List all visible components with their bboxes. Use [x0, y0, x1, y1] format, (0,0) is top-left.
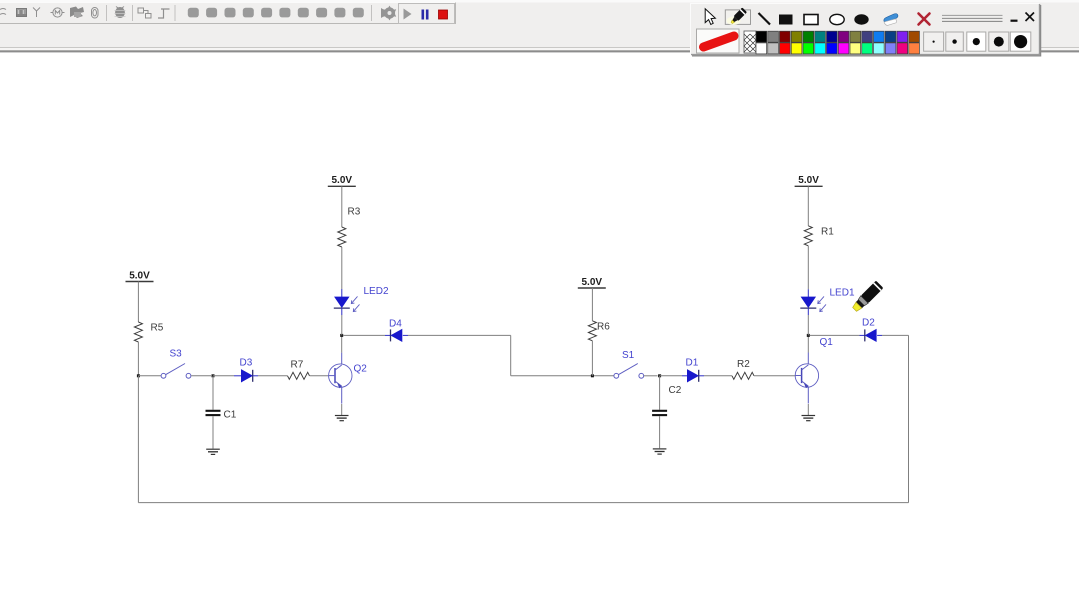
width selector lines [942, 15, 1003, 21]
icon source squiggle (cut off) [0, 9, 6, 15]
wire right rail [908, 335, 910, 502]
lead D3 anode [234, 375, 242, 377]
lead D4 cathode [385, 334, 391, 336]
wire left rail [137, 376, 139, 503]
power 5.0V V4 [795, 175, 823, 186]
svg-text:S3: S3 [170, 349, 183, 360]
ground GND C2 [653, 449, 667, 454]
LED LED2 [334, 296, 360, 311]
icon step waveform [158, 9, 170, 18]
lead D1 anode [682, 375, 688, 377]
power 5.0V V2 [328, 175, 356, 186]
svg-text:5.0V: 5.0V [129, 270, 150, 281]
switch S1 [614, 350, 644, 378]
wire R6 to node [591, 341, 593, 376]
junction node Q2 collector [340, 334, 343, 337]
wire step down [510, 335, 512, 375]
tool button: eraser [884, 14, 898, 26]
svg-text:R7: R7 [291, 360, 304, 371]
icon hierarchy blocks [138, 8, 151, 18]
wire node to C1 [212, 376, 214, 410]
pen size option r=5.0 [989, 32, 1009, 51]
lead LED1 cathode [807, 308, 809, 315]
wire C2 to ground [659, 416, 661, 448]
play button [404, 9, 412, 20]
tool button: filled rectangle [779, 15, 793, 25]
wire node to D3 [213, 375, 234, 377]
svg-text:D3: D3 [240, 358, 253, 369]
junction node C1 [212, 374, 215, 377]
wire bottom rail [138, 502, 908, 504]
wire LED2 to node [341, 315, 343, 335]
pen size option r=2.2 [946, 32, 964, 51]
separator [174, 5, 176, 21]
wire C1 to ground [212, 416, 214, 448]
tool button: select arrow [705, 9, 715, 25]
wire node to D4 [343, 334, 385, 336]
wire V4 to R1 [807, 186, 809, 226]
switch S3 [161, 349, 191, 379]
power 5.0V V1 [126, 270, 154, 281]
ground GND Q2 [335, 416, 349, 421]
svg-text:R1: R1 [821, 227, 834, 238]
wire D4 east [408, 334, 511, 336]
separator [371, 5, 373, 21]
wire Q1 collector to node [807, 337, 809, 353]
diode D2 [865, 329, 876, 341]
wire node to S3 [138, 375, 161, 377]
icon bug/virtual [115, 7, 126, 18]
annotation toolbar panel [690, 3, 1039, 54]
wire V2 to R3 [341, 186, 343, 227]
icon motor [51, 8, 65, 17]
svg-text:C1: C1 [224, 410, 237, 421]
wire V3 to R6 [591, 288, 593, 321]
svg-text:LED2: LED2 [364, 286, 389, 297]
pause button [422, 10, 429, 20]
icon component box [17, 9, 27, 17]
wire D1 to R2 [704, 375, 732, 377]
toolbar background strip [0, 0, 1079, 52]
wire D3 to R7 [258, 375, 288, 377]
lead LED2 cathode [341, 308, 343, 315]
capacitor C1 [206, 411, 221, 415]
lead D2 anode [877, 334, 882, 336]
wire Q2 emitter to ground [341, 404, 343, 415]
junction node Q1 collector [807, 334, 810, 337]
resistor R6 [588, 321, 596, 341]
tool button: clear X [919, 14, 930, 25]
wire node to D2 [810, 334, 860, 336]
svg-text:D4: D4 [389, 319, 402, 330]
tool button: rectangle outline [804, 15, 818, 25]
pen size option r=1.1 [924, 32, 944, 51]
icon transducer Y [33, 8, 40, 18]
wire LED1 to node [807, 315, 809, 335]
wire R3 to LED2 [341, 247, 343, 289]
svg-text:D1: D1 [686, 358, 699, 369]
resistor R3 [338, 227, 346, 247]
wire to S1 [511, 375, 614, 377]
tool button: pen (selected) [725, 10, 750, 25]
wire R5 to node [137, 342, 139, 376]
lead D3 cathode [253, 375, 258, 377]
svg-text:5.0V: 5.0V [798, 175, 819, 186]
stroke preview box [697, 29, 740, 53]
ground GND C1 [206, 449, 220, 454]
wire S3 to node C1 [191, 375, 211, 377]
svg-text:R2: R2 [737, 359, 750, 370]
svg-text:Q2: Q2 [354, 364, 368, 375]
wire R7 to Q2 base [310, 375, 329, 377]
svg-text:R3: R3 [348, 207, 361, 218]
junction node C2 [658, 374, 661, 377]
svg-text:R6: R6 [597, 322, 610, 333]
lead LED1 anode [807, 289, 809, 297]
wire R2 to Q1 base [754, 375, 795, 377]
svg-text:Q1: Q1 [820, 337, 834, 348]
wire R1 to LED1 [807, 246, 809, 289]
diode D4 [391, 329, 402, 341]
wire S1 to node C2 [644, 375, 658, 377]
icon battery capsule [92, 8, 99, 19]
separator [132, 5, 134, 21]
transistor Q2 [329, 353, 352, 404]
svg-text:C2: C2 [669, 385, 682, 396]
lead LED2 anode [341, 289, 343, 297]
color palette [756, 31, 919, 54]
resistor R7 [288, 372, 310, 379]
svg-text:5.0V: 5.0V [582, 277, 603, 288]
svg-text:D2: D2 [862, 318, 875, 329]
junction node R6 [591, 374, 594, 377]
stop button [439, 10, 448, 19]
lead D1 cathode [699, 375, 704, 377]
LED LED1 [800, 296, 826, 311]
wire V1 to R5 [137, 282, 139, 323]
tool button: filled ellipse [854, 14, 868, 24]
lead D2 cathode [860, 334, 865, 336]
svg-text:S1: S1 [622, 350, 635, 361]
tool button: ellipse outline [830, 14, 844, 24]
svg-text:R5: R5 [151, 323, 164, 334]
separator [106, 5, 108, 21]
svg-text:LED1: LED1 [830, 288, 855, 299]
lead D4 anode [403, 334, 408, 336]
wire node to C2 [659, 376, 661, 410]
diode D1 [688, 370, 699, 382]
gear icon [381, 6, 396, 21]
wire D2 to right rail [882, 334, 909, 336]
svg-text:5.0V: 5.0V [332, 175, 353, 186]
ground GND Q1 [802, 416, 816, 421]
minimize button [1011, 20, 1018, 22]
wire Q1 emitter to ground [807, 404, 809, 415]
toolbar lower separator lines [0, 47, 1079, 49]
capacitor C2 [652, 411, 667, 415]
diode D3 [242, 370, 253, 382]
wire node to D1 [660, 375, 682, 377]
marker pen cursor [851, 281, 884, 314]
run controls frame [399, 4, 455, 24]
pen size option r=6.6 [1010, 32, 1031, 51]
transparent hatch swatch [744, 31, 756, 53]
left toolbar frame [0, 3, 456, 24]
resistor R5 [134, 322, 142, 342]
wire Q2 collector to node [341, 337, 343, 353]
power 5.0V V3 [578, 277, 606, 288]
pen size option r=3.6 [967, 32, 986, 51]
tool button: line [759, 13, 771, 25]
transistor Q1 [795, 353, 818, 404]
resistor R1 [804, 226, 812, 246]
gray placeholder buttons [188, 8, 364, 18]
icon misc dark [70, 7, 84, 19]
resistor R2 [732, 372, 754, 379]
close button [1026, 13, 1035, 22]
junction node left [137, 374, 140, 377]
